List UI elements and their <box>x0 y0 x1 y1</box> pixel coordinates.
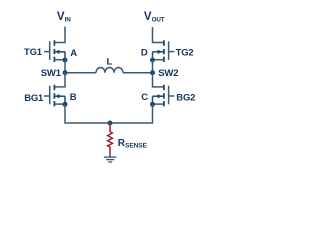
svg-text:B: B <box>70 92 77 103</box>
svg-text:VIN: VIN <box>57 11 71 23</box>
node A junction dot <box>63 58 68 63</box>
wire BG2 source lead <box>153 103 164 105</box>
svg-text:RSENSE: RSENSE <box>118 138 148 150</box>
wire SW1 to BG1 drain <box>54 73 65 87</box>
node D junction dot <box>150 58 155 63</box>
svg-text:D: D <box>141 47 148 58</box>
wire TG1 source lead <box>54 59 65 61</box>
svg-text:SW2: SW2 <box>158 68 178 79</box>
label L <box>106 56 112 67</box>
svg-text:BG2: BG2 <box>176 93 195 104</box>
svg-text:VOUT: VOUT <box>144 11 165 23</box>
svg-text:A: A <box>70 48 77 59</box>
inductor L <box>96 68 123 73</box>
wire BG1 source lead <box>54 103 65 105</box>
transistor BG1 <box>44 85 65 107</box>
wire SW1 to inductor <box>65 72 96 74</box>
label RSENSE <box>118 138 148 150</box>
label BG1 <box>24 93 44 104</box>
wire TG2 source lead <box>153 59 164 61</box>
resistor RSENSE <box>108 123 113 157</box>
svg-text:C: C <box>141 92 148 103</box>
transistor BG2 <box>153 85 175 107</box>
svg-text:TG1: TG1 <box>24 47 43 58</box>
svg-text:SW1: SW1 <box>41 68 62 79</box>
label TG1 <box>24 47 43 58</box>
wire VOUT to TG2 drain <box>153 27 164 43</box>
node C junction dot <box>150 102 155 107</box>
wire node A to SW1 <box>64 60 66 73</box>
label node D <box>141 47 148 58</box>
label TG2 <box>176 47 194 58</box>
net VIN label <box>57 11 71 23</box>
label node C <box>141 92 148 103</box>
wire SW2 to BG2 drain <box>153 73 164 87</box>
transistor TG1 <box>44 40 65 62</box>
wire inductor to SW2 <box>123 72 153 74</box>
label SW2 <box>158 68 178 79</box>
label SW1 <box>41 68 62 79</box>
net VOUT label <box>144 11 165 23</box>
svg-text:L: L <box>106 56 112 67</box>
transistor TG2 <box>153 40 175 62</box>
label BG2 <box>176 93 195 104</box>
label node A <box>70 48 77 59</box>
label node B <box>70 92 77 103</box>
node B junction dot <box>63 102 68 107</box>
wire node D to SW2 <box>152 60 154 73</box>
node SW2 junction dot <box>150 70 155 75</box>
wire node B to bottom rail <box>65 104 110 123</box>
wire VIN to TG1 drain <box>54 27 65 43</box>
node RSENSE junction dot <box>108 121 113 126</box>
wire node C to bottom rail <box>110 104 153 123</box>
svg-text:BG1: BG1 <box>24 93 44 104</box>
ground <box>104 157 117 162</box>
node SW1 junction dot <box>63 70 68 75</box>
svg-text:TG2: TG2 <box>176 47 194 58</box>
